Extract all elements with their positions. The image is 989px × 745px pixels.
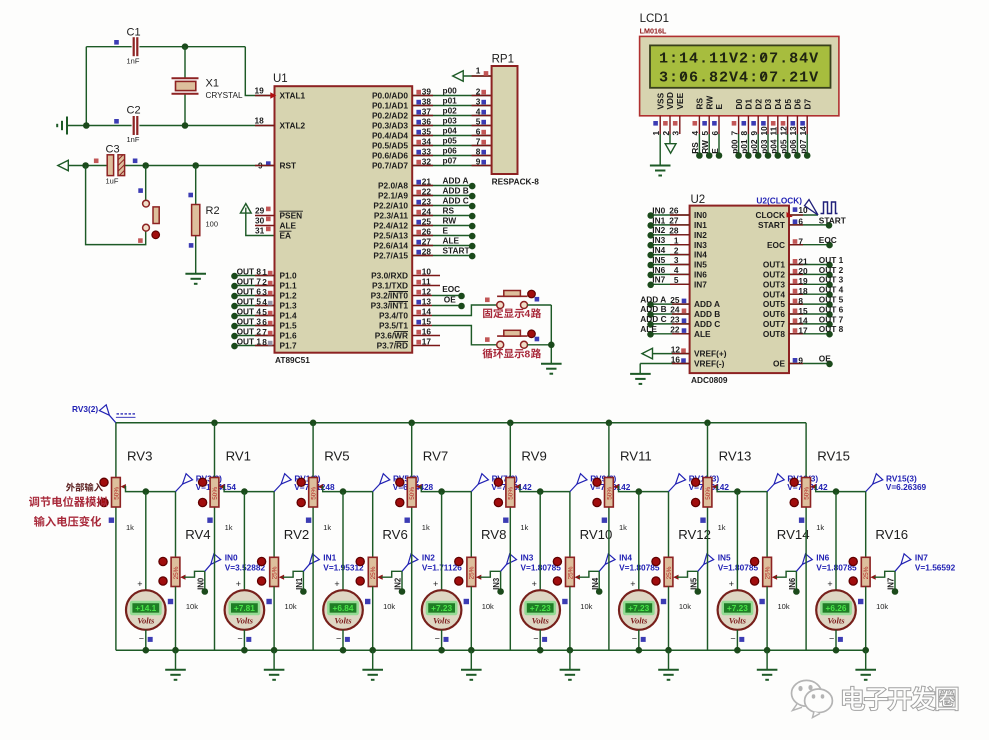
svg-text:IN1: IN1 [295,577,304,590]
svg-text:10k: 10k [580,602,592,611]
svg-text:p07: p07 [798,139,808,154]
svg-text:C2: C2 [127,105,141,117]
svg-text:16: 16 [422,327,432,337]
svg-text:P3.5/T1: P3.5/T1 [379,321,408,331]
U2 ADC0809 body [690,206,789,374]
node RV6 bottom [369,647,376,654]
ground col5 [569,650,571,669]
wire meter- col4 [441,630,443,650]
svg-text:P1.2: P1.2 [280,291,297,301]
svg-text:25%: 25% [666,566,673,579]
probe arrow RV7(3) [471,484,478,492]
wire button1 to ground rail [527,304,551,306]
probe arrow IN7 [895,564,901,571]
svg-text:+: + [236,579,241,589]
svg-text:p06: p06 [443,146,458,156]
svg-text:U1: U1 [273,73,288,85]
svg-text:IN4: IN4 [694,250,707,260]
wire wiper RV12 net IN5 [673,575,678,580]
svg-text:ADD A: ADD A [640,294,666,304]
svg-text:RW: RW [700,140,710,154]
svg-text:IN3: IN3 [652,235,665,245]
svg-text:1uF: 1uF [106,177,119,186]
wire column rail RV9 [509,423,511,478]
svg-text:OUT 3: OUT 3 [819,275,844,285]
svg-text:34: 34 [422,137,432,147]
svg-text:P0.3/AD3: P0.3/AD3 [372,121,408,131]
svg-text:25%: 25% [272,566,279,579]
svg-text:2: 2 [476,87,481,97]
svg-text:26: 26 [669,206,679,216]
svg-text:XTAL1: XTAL1 [280,91,306,101]
svg-text:RESPACK-8: RESPACK-8 [492,177,540,187]
wire wiper RV14 net IN6 [772,575,777,580]
svg-text:−: − [336,633,341,643]
wire column rail RV15 [805,423,807,478]
ground (VREF-) [630,374,651,384]
svg-text:IN5: IN5 [694,260,707,270]
svg-text:IN1: IN1 [694,220,707,230]
node meter-bottom col2 [241,647,248,654]
net OE (P3.3) [432,305,462,307]
svg-text:P2.7/A15: P2.7/A15 [373,251,408,261]
svg-text:7: 7 [798,237,803,247]
svg-text:p01: p01 [443,96,458,106]
svg-text:50%: 50% [212,487,219,500]
svg-text:5: 5 [476,117,481,127]
svg-text:3: 3 [476,97,481,107]
svg-text:IN0: IN0 [196,577,205,590]
svg-text:+7.23: +7.23 [727,603,748,613]
wire meter+ col1 [145,492,147,591]
svg-text:50%: 50% [705,487,712,500]
svg-text:1: 1 [674,235,679,245]
terminal arrow RST input [58,160,69,171]
svg-text:E: E [443,226,449,236]
wire RV6 bottom [372,587,374,651]
node meter-bottom col5 [537,647,544,654]
wire meter+ col5 [539,492,541,591]
node meter-bottom col7 [734,647,741,654]
svg-text:P3.3/INT1: P3.3/INT1 [371,301,409,311]
svg-text:17: 17 [422,337,432,347]
svg-text:IN0: IN0 [652,205,665,215]
svg-text:ALE: ALE [694,329,711,339]
watermark wechat icon [792,680,822,710]
svg-text:V=1.56592: V=1.56592 [915,562,956,572]
svg-text:R2: R2 [206,205,220,217]
svg-text:IN3: IN3 [521,553,534,563]
crystal X1 [172,78,199,94]
node RST-R2 junction [192,162,199,169]
svg-text:IN5: IN5 [689,577,698,590]
svg-text:C1: C1 [127,27,141,39]
svg-text:START: START [443,246,470,256]
svg-text:38: 38 [422,97,432,107]
svg-text:OUT 5: OUT 5 [237,296,262,306]
svg-text:OUT1: OUT1 [763,260,786,270]
svg-text:RV3: RV3 [127,448,152,463]
svg-text:14: 14 [422,307,432,317]
svg-text:3: 3 [671,131,681,136]
svg-text:ADD C: ADD C [640,314,666,324]
svg-text:3: 3 [262,287,267,297]
svg-text:5: 5 [674,275,679,285]
wire meter+ col6 [638,492,640,591]
svg-text:33: 33 [422,147,432,157]
svg-text:−: − [829,633,834,643]
svg-text:P2.0/A8: P2.0/A8 [378,181,408,191]
svg-text:18: 18 [255,115,265,125]
svg-text:IN4: IN4 [619,553,632,563]
svg-text:p06: p06 [788,139,798,154]
svg-text:+: + [532,579,537,589]
svg-text:P0.6/AD6: P0.6/AD6 [372,151,408,161]
svg-text:P0.2/AD2: P0.2/AD2 [372,111,408,121]
wire wiper RV8 net IN3 [476,575,481,580]
wire wiper RV11 [614,484,619,489]
wire LCD RS net RS [698,134,700,156]
wire wiper RV16 net IN7 [870,575,875,580]
svg-text:OUT 5: OUT 5 [819,295,844,305]
svg-text:IN3: IN3 [492,577,501,590]
svg-text:ADD A: ADD A [694,299,720,309]
svg-text:RS: RS [690,142,700,154]
svg-text:P3.2/INT0: P3.2/INT0 [371,291,409,301]
wire button2 to ground rail [527,344,551,346]
svg-text:OUT2: OUT2 [763,270,786,280]
svg-text:35: 35 [422,127,432,137]
svg-text:ALE: ALE [280,221,297,231]
svg-text:C3: C3 [106,144,120,156]
svg-text:P3.4/T0: P3.4/T0 [379,311,408,321]
svg-text:p04: p04 [769,139,779,154]
svg-text:29: 29 [255,205,265,215]
svg-text:50%: 50% [113,487,120,500]
svg-text:P2.1/A9: P2.1/A9 [378,191,408,201]
svg-text:D1: D1 [744,99,754,110]
svg-text:25%: 25% [173,566,180,579]
svg-text:8: 8 [525,349,531,360]
wire wiper RV7 [416,484,421,489]
svg-text:RS: RS [695,98,705,110]
svg-text:D3: D3 [763,99,773,110]
node top rail col 4 [408,420,415,427]
svg-text:P1.6: P1.6 [280,331,297,341]
svg-text:E: E [714,104,724,110]
annotation adjust pot [29,496,108,507]
svg-text:5: 5 [262,307,267,317]
svg-text:Volts: Volts [433,615,451,625]
svg-text:P1.4: P1.4 [280,311,297,321]
svg-text:RV10: RV10 [580,527,613,542]
wire LCD VSS to ground [659,134,661,165]
svg-text:−: − [632,633,637,643]
svg-text:V=6.26369: V=6.26369 [886,482,927,492]
svg-text:OUT 1: OUT 1 [237,336,262,346]
capacitor C3 1uF [107,155,113,176]
svg-text:23: 23 [670,315,680,325]
svg-text:RW: RW [704,96,714,110]
svg-text:P0.1/AD1: P0.1/AD1 [372,101,408,111]
svg-text:P3.1/TXD: P3.1/TXD [372,281,408,291]
svg-text:RV4: RV4 [185,527,210,542]
svg-text:EOC: EOC [767,240,785,250]
svg-text:p07: p07 [443,156,458,166]
svg-text:p03: p03 [759,139,769,154]
svg-text:RST: RST [280,161,297,171]
svg-text:EOC: EOC [819,235,837,245]
node wiper-meter RV15 [833,488,840,495]
svg-text:Volts: Volts [137,615,155,625]
wire top supply rail [116,422,806,424]
node RV14 bottom [764,647,771,654]
wire EA power [246,215,275,236]
wire LCD E net E [718,134,720,156]
svg-text:P3.7/RD: P3.7/RD [377,341,408,351]
svg-text:VREF(+): VREF(+) [694,349,727,359]
svg-text:P2.3/A11: P2.3/A11 [374,211,409,221]
svg-text:IN3: IN3 [694,240,707,250]
svg-text:+: + [827,579,832,589]
svg-text:P3.0/RXD: P3.0/RXD [371,271,408,281]
svg-text:1k: 1k [225,523,233,532]
svg-text:X1: X1 [206,78,219,90]
svg-text:+: + [433,579,438,589]
svg-text:25%: 25% [567,566,574,579]
svg-text:U2(CLOCK): U2(CLOCK) [756,195,802,205]
svg-text:1k: 1k [323,523,331,532]
svg-text:10k: 10k [679,602,691,611]
svg-text:2: 2 [674,245,679,255]
svg-text:6: 6 [476,127,481,137]
svg-text:Volts: Volts [334,615,352,625]
node RV4 bottom [172,647,179,654]
terminal arrow VREF+ [642,348,653,359]
svg-text:RV15: RV15 [817,448,850,463]
ground (XTAL2 net) [57,117,67,135]
svg-text:p05: p05 [778,139,788,154]
svg-text:OUT 3: OUT 3 [237,316,262,326]
svg-text:ALE: ALE [640,324,657,334]
svg-text:ADD B: ADD B [640,304,666,314]
node buttons rail [548,342,555,349]
svg-text:31: 31 [255,225,265,235]
wire column rail RV5 [312,423,314,478]
wire LCD D3 net p03 [767,134,769,156]
resistor R2 100 [195,166,197,205]
svg-text:START: START [819,215,846,225]
wire LCD D4 net p04 [777,134,779,156]
svg-text:OUT5: OUT5 [763,299,786,309]
node RV10 bottom [567,647,574,654]
svg-text:1k: 1k [520,523,528,532]
svg-text:IN1: IN1 [323,553,336,563]
ground col2 [273,650,275,669]
svg-text:−: − [237,633,242,643]
U1 AT89C51 body [275,86,413,353]
svg-text:D4: D4 [773,99,783,110]
probe arrow RV13(3) [767,484,774,492]
svg-text:9: 9 [476,157,481,167]
svg-text:P1.5: P1.5 [280,321,297,331]
svg-text:13: 13 [422,297,432,307]
node RST left junction [82,162,89,169]
node wiper-meter RV9 [537,488,544,495]
svg-text:IN6: IN6 [788,577,797,590]
net EOC (P3.2) [432,295,462,297]
ground col7 [766,650,768,669]
button fixed-display-4ch [497,295,527,297]
ground col1 [175,650,177,669]
svg-text:19: 19 [255,85,265,95]
svg-text:P0.0/AD0: P0.0/AD0 [372,91,408,101]
svg-text:PSEN: PSEN [280,211,303,221]
svg-text:Volts: Volts [827,615,845,625]
wire meter+ col4 [441,492,443,591]
wire LCD D2 net p02 [757,134,759,156]
annotation external input [66,483,103,492]
svg-text:IN5: IN5 [652,255,665,265]
wire RP1 pin1 [463,75,491,77]
svg-text:10k: 10k [876,602,888,611]
wire VREF- to ground [639,364,641,374]
node wiper-meter RV5 [340,488,347,495]
wire LCD D7 net p07 [806,134,808,156]
svg-text:IN6: IN6 [694,270,707,280]
ground (R2) [185,274,206,284]
svg-text:+7.23: +7.23 [628,603,649,613]
svg-text:1k: 1k [126,523,134,532]
svg-text:28: 28 [422,247,432,257]
power arrow (LCD VDD) [665,144,676,154]
svg-text:RW: RW [443,216,457,226]
probe arrow IN1 [303,564,309,571]
wire wiper RV6 net IN2 [377,575,382,580]
svg-text:VEE: VEE [675,92,685,109]
svg-text:Volts: Volts [532,615,550,625]
svg-text:P1.7: P1.7 [280,341,297,351]
svg-text:50%: 50% [804,487,811,500]
svg-text:4: 4 [262,297,267,307]
probe arrow RV1(3) [274,484,281,492]
svg-text:50%: 50% [508,487,515,500]
svg-text:IN7: IN7 [652,275,665,285]
svg-text:50%: 50% [606,487,613,500]
svg-text:VSS: VSS [655,92,665,109]
node wiper-meter RV1 [241,488,248,495]
svg-text:4: 4 [476,107,481,117]
svg-text:OUT 6: OUT 6 [819,304,844,314]
svg-text:LM016L: LM016L [640,27,667,36]
wire P3.5 to button 2 [432,326,497,345]
svg-text:OUT 8: OUT 8 [237,266,262,276]
svg-text:15: 15 [798,306,808,316]
svg-text:LCD1: LCD1 [640,13,669,25]
svg-text:7: 7 [476,137,481,147]
svg-text:15: 15 [422,317,432,327]
svg-text:CLOCK: CLOCK [756,210,786,220]
svg-text:30: 30 [255,215,265,225]
svg-text:ADD C: ADD C [694,319,720,329]
svg-text:50%: 50% [409,487,416,500]
svg-text:+7.81: +7.81 [234,603,255,613]
probe arrow IN4 [599,564,605,571]
svg-text:VDD: VDD [665,92,675,110]
watermark text [842,686,958,711]
node meter-bottom col3 [340,647,347,654]
svg-text:D7: D7 [802,99,812,110]
wire meter- col2 [243,630,245,650]
svg-text:AT89C51: AT89C51 [275,355,310,365]
svg-text:28: 28 [669,226,679,236]
svg-text:IN2: IN2 [694,230,707,240]
svg-text:P2.6/A14: P2.6/A14 [373,241,408,251]
svg-text:p00: p00 [443,86,458,96]
svg-text:EOC: EOC [442,284,460,294]
svg-text:RS: RS [443,206,455,216]
svg-text:2: 2 [262,277,267,287]
svg-text:IN7: IN7 [694,279,707,289]
svg-text:OUT 7: OUT 7 [819,314,844,324]
svg-text:37: 37 [422,107,432,117]
svg-text:p02: p02 [443,106,458,116]
svg-text:P1.3: P1.3 [280,301,297,311]
svg-text:ADC0809: ADC0809 [691,375,728,385]
wire RV12 bottom [668,587,670,651]
wire column rail RV7 [411,423,413,478]
wire bottom ground rail [116,649,866,651]
capacitor C1 [134,37,138,56]
wire wiper RV3 [121,484,126,489]
wire wiper RV1 [219,484,224,489]
svg-text:P0.7/AD7: P0.7/AD7 [372,161,408,171]
wire LCD D1 net p01 [747,134,749,156]
svg-text:CRYSTAL: CRYSTAL [206,91,243,100]
svg-text:RV1: RV1 [226,448,251,463]
svg-text:6: 6 [262,317,267,327]
svg-text:P0.4/AD4: P0.4/AD4 [372,131,408,141]
svg-text:OUT 6: OUT 6 [237,286,262,296]
ground col6 [668,650,670,669]
wire LCD D5 net p05 [787,134,789,156]
svg-text:1: 1 [476,65,481,75]
wire LCD VDD power [669,134,671,144]
wire meter- col1 [145,630,147,650]
wire RV4 bottom [175,587,177,651]
svg-text:+: + [137,579,142,589]
capacitor C2 [134,116,138,135]
ground (LCD VSS) [650,166,671,176]
resistor pack RP1 RESPACK-8 body [492,66,518,174]
svg-text:RV13: RV13 [719,448,752,463]
LCD1 screen [650,45,831,87]
svg-text:22: 22 [670,325,680,335]
wire meter- col8 [835,630,837,650]
svg-text:RV5: RV5 [324,448,349,463]
svg-text:1nF: 1nF [127,135,140,144]
svg-text:6: 6 [798,217,803,227]
wire P3.4 to button 1 [432,305,497,316]
ground (buttons) [541,364,562,374]
svg-text:+: + [729,579,734,589]
wire RV2 bottom [273,587,275,651]
svg-text:10k: 10k [482,602,494,611]
svg-text:P2.5/A13: P2.5/A13 [373,231,408,241]
svg-text:RV8: RV8 [481,527,506,542]
wire RST row [68,165,107,167]
push button (reset) [143,200,150,231]
